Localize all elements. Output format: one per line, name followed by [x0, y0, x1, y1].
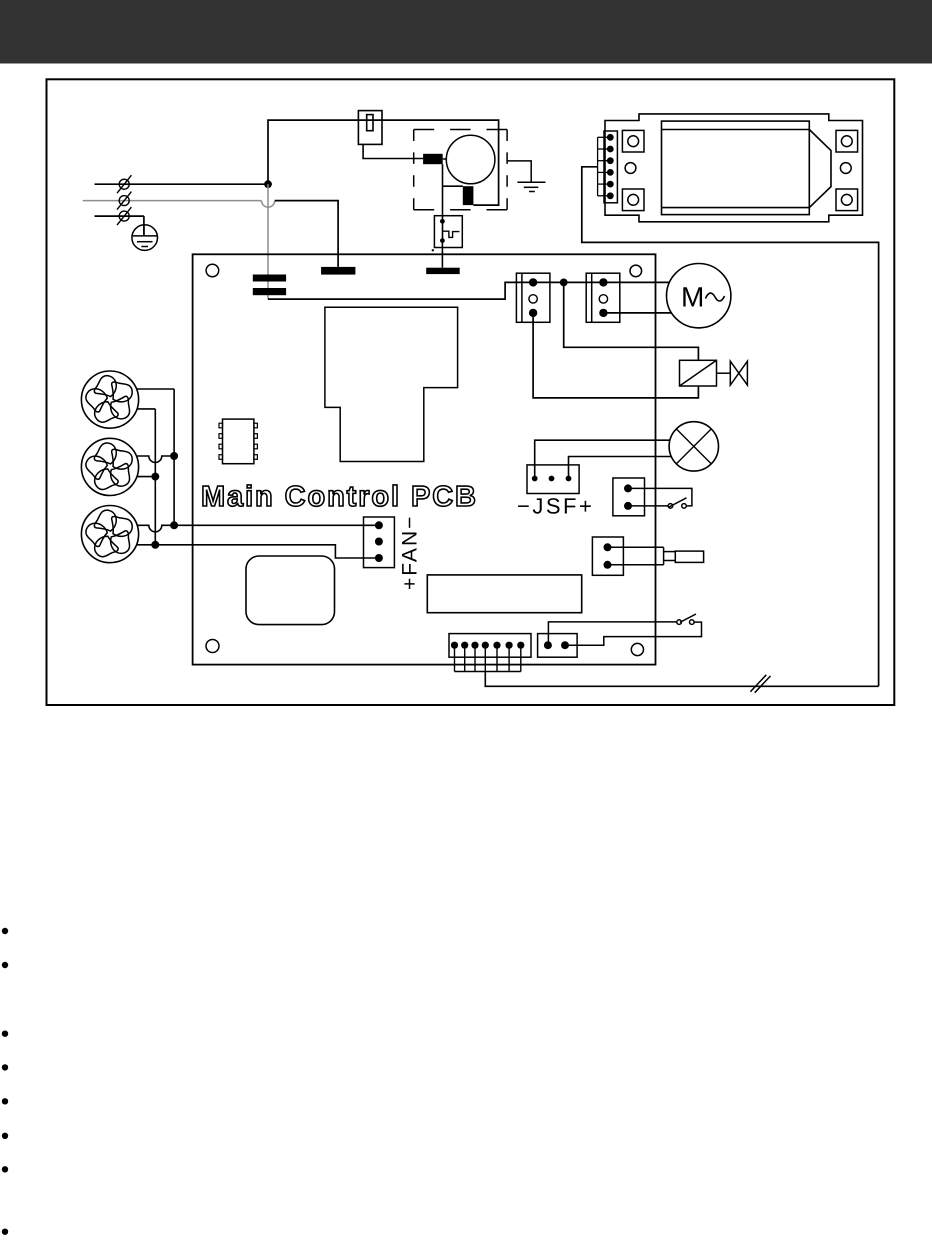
- svg-text:+FAN−: +FAN−: [399, 515, 422, 590]
- svg-text:Main Control PCB: Main Control PCB: [201, 481, 478, 513]
- svg-text:M: M: [681, 281, 704, 312]
- svg-text:−JSF+: −JSF+: [517, 494, 594, 519]
